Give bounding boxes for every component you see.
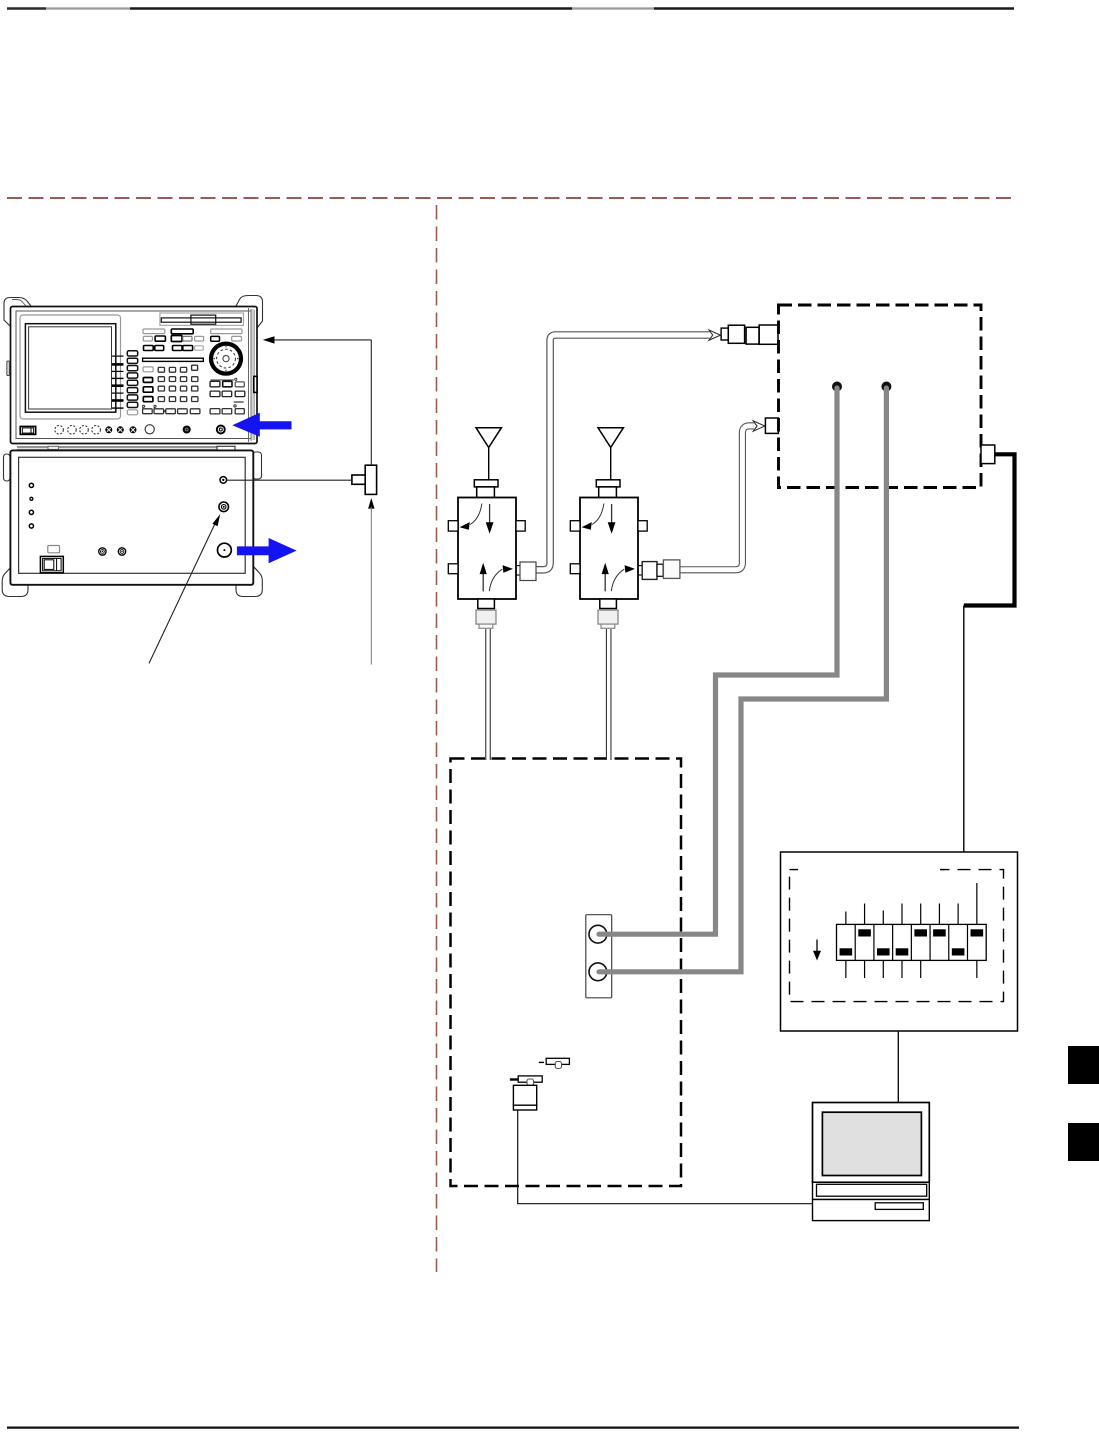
- F-key button 7: [127, 395, 137, 400]
- coupler DC2 curved arrow to right: [611, 569, 624, 591]
- gray cable G1: [599, 388, 837, 934]
- lower unit right connector 2: [219, 502, 229, 512]
- lower unit LED 4: [29, 524, 33, 528]
- antenna A1 triangle: [476, 428, 501, 448]
- keypad col1 r4 dark: [143, 397, 153, 402]
- test point dot 2: [881, 382, 891, 392]
- btn g1 r2 light: [143, 336, 152, 341]
- softkey tick 5: [112, 384, 124, 387]
- device upper T cylinder: [555, 1062, 561, 1069]
- BTS right side connector square: [981, 445, 995, 464]
- breaker panel inner dashed box top-edge blank: [798, 866, 940, 873]
- inter-unit trim line 1: [17, 446, 223, 448]
- BNC plate: [586, 915, 612, 998]
- vertical brown dashed separator: [436, 205, 438, 1272]
- coupler DC1 right stub upper: [516, 521, 525, 531]
- lower unit right connector 1: [220, 477, 227, 484]
- BTS cabinet dashed box: [779, 305, 982, 488]
- cable panel to laptop: [897, 1031, 899, 1103]
- coupler DC2 right connector block B: [663, 560, 680, 579]
- inter-unit trim small left piece: [48, 446, 59, 449]
- laptop keyboard inner: [817, 1184, 927, 1196]
- coupler DC2 right connector block A: [642, 562, 657, 580]
- device output line to laptop: [518, 1110, 813, 1204]
- top unit inner chassis line: [16, 311, 252, 439]
- coupler DC2 right stub upper: [638, 521, 647, 531]
- device upper T bar: [546, 1058, 569, 1064]
- device lower T dash: [510, 1078, 518, 1080]
- keypad key r3c1: [158, 386, 164, 391]
- breaker 4 toggle: [896, 948, 909, 955]
- device lower T cylinder: [527, 1079, 534, 1086]
- up arrow below adapter: head: [368, 498, 374, 509]
- rc r2 b2: [222, 391, 232, 397]
- lower unit LED 2: [30, 497, 33, 500]
- breaker panel down arrow head: [813, 951, 821, 961]
- BTS RX connector square: [765, 418, 778, 433]
- dashed circle connector 2: [68, 426, 77, 435]
- floppy eject tab: [191, 315, 216, 324]
- rc r3 b3: [235, 409, 244, 414]
- keypad key r2c2: [169, 377, 175, 382]
- breaker 3 bottom lead: [882, 960, 884, 978]
- rotary knob mid circle: [217, 349, 236, 368]
- laptop base slot: [875, 1203, 923, 1210]
- breaker 7 top lead: [957, 904, 959, 925]
- lower unit bottom-right foot: [236, 566, 262, 597]
- BTS input connector piece 1: [721, 328, 728, 340]
- keypad key r3c2: [169, 386, 175, 391]
- coupler DC2 right port neck lines: [638, 565, 643, 567]
- laptop screen: [822, 1112, 921, 1175]
- breaker panel outer box: [781, 852, 1018, 1031]
- keypad key r3c3: [180, 386, 186, 391]
- cable W1 open arrowhead: [709, 330, 721, 340]
- coupler DC2 top flange narrow: [599, 487, 617, 498]
- right cluster top circle marker: [235, 378, 237, 380]
- breaker divider 1: [854, 924, 856, 960]
- breaker 5 toggle: [914, 929, 927, 936]
- rc r3 b2: [222, 409, 232, 414]
- lower unit left mid foot: [4, 454, 11, 481]
- rotary knob center: [223, 356, 229, 362]
- breaker 5 top lead: [920, 904, 922, 925]
- keypad col1 r2 dark: [143, 378, 152, 383]
- black cable thin section: [963, 606, 965, 853]
- laptop keyboard outer: [813, 1182, 930, 1199]
- rc bottom line: [234, 401, 244, 403]
- keypad bottom btn 4: [178, 409, 188, 414]
- coupler DC1 bottom flange: [478, 599, 495, 609]
- cable W2 (outer): [679, 426, 754, 570]
- coupler DC2 bottom flange: [600, 599, 617, 609]
- breaker 5 bottom lead: [920, 960, 922, 978]
- softkey tick 6: [112, 392, 124, 394]
- lower unit LED 1: [29, 483, 33, 487]
- test point dot 1: [832, 382, 842, 392]
- F-key button 3: [127, 366, 137, 371]
- breaker 2 bottom lead: [864, 960, 866, 978]
- antenna A1 stem: [488, 448, 490, 480]
- keypad col1 r3 dark: [143, 387, 153, 392]
- keypad key r2c3: [180, 377, 186, 382]
- mid knob: [183, 426, 190, 433]
- keypad key r2c1: [158, 377, 164, 382]
- rotary knob ticks: [214, 346, 239, 371]
- rc r1 b1: [210, 381, 220, 387]
- F-key button 9 (light): [127, 410, 137, 415]
- coupler DC2 bottom connector tip: [601, 624, 615, 628]
- small knob 2: [117, 427, 123, 433]
- CRT screen: [29, 327, 112, 409]
- floppy drive bezel: [160, 313, 244, 325]
- callout top arrowhead: [263, 336, 275, 343]
- F-key button 2: [127, 358, 137, 363]
- instrument top-right foot: [236, 296, 263, 329]
- page tab marker 1: [1068, 1046, 1099, 1084]
- btn g2 r3 dark a: [173, 346, 183, 351]
- device lower T bar: [518, 1076, 542, 1082]
- up arrow below adapter: shaft: [370, 507, 372, 665]
- coupler DC2 down arrow: [611, 504, 613, 523]
- lower unit LED 3: [29, 510, 33, 514]
- rotary knob outer ring: [211, 344, 241, 374]
- cable W1 (core): [536, 335, 710, 570]
- softkey tick 3: [112, 370, 124, 372]
- top unit right side slot: [254, 376, 257, 392]
- breaker 8 toggle: [971, 929, 984, 936]
- breaker 1 toggle: [840, 948, 853, 955]
- device body: [513, 1085, 536, 1105]
- F-key button 5: [127, 380, 137, 385]
- coupler DC1 top flange narrow: [477, 487, 495, 498]
- cable W2 open arrowhead: [753, 421, 765, 431]
- BNC jack 2: [589, 963, 607, 981]
- keypad key r2c4: [192, 377, 198, 382]
- coupler DC2 top flange wide: [596, 480, 620, 487]
- cable W4 DC2 down (outer): [606, 629, 612, 760]
- breaker 8 top lead: [976, 883, 978, 924]
- rc r1 b2: [223, 381, 232, 387]
- coupler DC1 left stub lower: [448, 564, 458, 574]
- footer rule: [7, 1426, 1019, 1428]
- keypad key r1c3: [180, 367, 186, 372]
- dashed circle connector 1: [55, 426, 64, 435]
- coupler DC1 curved arrow to left: [470, 504, 482, 525]
- header rule dark segment 2: [130, 7, 572, 10]
- coupler DC1 right port neck lines: [515, 565, 520, 567]
- keypad key r1c1: [158, 367, 164, 372]
- device base strip: [513, 1105, 536, 1110]
- rc r1 b3: [235, 382, 244, 387]
- btn g2 r2 light b: [195, 336, 204, 341]
- F-key button 4: [127, 373, 137, 378]
- small knob 1: [106, 427, 112, 433]
- breaker divider 7: [966, 924, 968, 960]
- breaker row body: [837, 924, 987, 960]
- breaker panel inner dashed box top dot: [941, 869, 945, 871]
- instrument top-left foot: [4, 298, 31, 327]
- keypad bottom btn 5: [190, 409, 200, 414]
- CRT frame: [25, 324, 115, 413]
- lower unit right big connector: [218, 543, 232, 557]
- keypad bottom tick a: [143, 405, 145, 407]
- breaker divider 5: [929, 924, 931, 960]
- keypad bottom row link dashes: [164, 410, 166, 412]
- coupler DC1 up arrow: [482, 574, 484, 592]
- breaker 6 toggle: [933, 929, 946, 936]
- breaker 2 top lead: [864, 904, 866, 925]
- breaker divider 4: [910, 924, 912, 960]
- breaker 4 bottom lead: [901, 960, 903, 978]
- F-key button 6: [127, 388, 137, 393]
- device upper T dash: [539, 1061, 544, 1063]
- keypad key r1c5 raised: [192, 365, 198, 370]
- cable W4 DC2 down (core): [607, 629, 610, 760]
- keypad bottom btn 2: [154, 409, 164, 414]
- coupler DC2 right connector neck: [657, 564, 663, 576]
- header rule left dark segment: [7, 7, 46, 9]
- breaker 6 top lead: [938, 904, 940, 925]
- breaker 8 bottom lead: [976, 960, 978, 978]
- BTS input connector piece 3: [746, 327, 759, 344]
- breaker divider 6: [948, 924, 950, 960]
- open circle connector: [145, 425, 154, 434]
- coupler DC2 bottom connector block: [598, 610, 618, 624]
- BTS input connector piece 2: [728, 325, 744, 343]
- shelter dashed box: [451, 759, 682, 1187]
- btn g2 r2 dark big: [171, 336, 182, 342]
- black cable thick section: [964, 454, 1015, 605]
- breaker 1 top lead: [845, 912, 847, 925]
- rc r3 b1: [210, 409, 220, 414]
- adapter T body: [365, 465, 376, 494]
- right knob with ring: [217, 426, 225, 434]
- diagonal callout arrowhead: [212, 514, 220, 526]
- coupler DC2 body: [580, 498, 638, 600]
- inter-unit trim line 2: [17, 448, 223, 450]
- keypad key r4c3: [180, 397, 186, 402]
- header rule gray segment 2: [572, 7, 654, 9]
- softkey tick 4: [112, 377, 124, 379]
- softkey tick 1: [112, 355, 124, 357]
- header rule dark segment 3: [654, 7, 1014, 10]
- coupler DC2 curved arrow to left: [592, 504, 604, 525]
- blue arrow pointing right (RF OUT): [237, 538, 297, 563]
- long bar button: [143, 358, 204, 361]
- cable W2 (core): [679, 426, 754, 570]
- coupler DC1 bottom connector block: [476, 610, 496, 624]
- breaker panel inner dashed box: [790, 870, 1004, 1002]
- breaker 2 toggle: [858, 929, 871, 936]
- btn g2 r3 light c: [195, 346, 204, 350]
- btn g3 r2 dark: [211, 336, 220, 341]
- coupler DC2 left stub upper: [570, 521, 580, 531]
- coupler DC2 up arrow: [604, 574, 606, 592]
- btn g1 r2 dark: [155, 336, 165, 341]
- btn g3 r2 light: [232, 336, 242, 341]
- btn g1 wide light: [143, 329, 165, 334]
- cable W1 (outer): [536, 335, 710, 570]
- keypad key r1c2: [169, 367, 175, 372]
- F-key button 1: [127, 351, 137, 356]
- right cluster top line: [210, 379, 234, 381]
- lower unit power button: [40, 556, 63, 572]
- breaker panel down arrow shaft: [816, 940, 818, 954]
- callout vertical line: [370, 340, 372, 465]
- blue arrow pointing left (RF IN): [232, 413, 291, 437]
- breaker divider 3: [892, 924, 894, 960]
- breaker 3 toggle: [877, 948, 890, 955]
- adapter T side tab: [352, 475, 365, 484]
- cable W3 DC1 down (core): [486, 629, 489, 760]
- coupler DC2 left stub lower: [570, 564, 580, 574]
- breaker 4 top lead: [901, 904, 903, 925]
- lower unit connector b: [118, 548, 125, 555]
- coupler DC1 bottom connector tip: [479, 624, 493, 628]
- coupler DC1 body: [458, 498, 516, 600]
- antenna A2 triangle: [598, 428, 623, 448]
- keypad key r4c4: [192, 397, 198, 402]
- gray cable G2: [599, 388, 886, 972]
- BNC jack 1: [589, 925, 607, 943]
- laptop monitor outer: [813, 1103, 930, 1183]
- inter-unit trim block: [217, 446, 235, 450]
- keypad key r3c4: [192, 386, 198, 391]
- lower unit bottom-left foot: [2, 566, 28, 597]
- lower unit bottom-right foot diagonal: [254, 567, 259, 573]
- small knob 3: [130, 427, 136, 433]
- btn g1 r3 dark a: [144, 346, 154, 351]
- breaker 7 toggle: [952, 948, 965, 955]
- keypad bottom btn 1: [143, 409, 153, 414]
- btn g3 wide light: [211, 329, 242, 334]
- laptop base: [813, 1200, 930, 1221]
- softkey tick 2: [112, 363, 124, 366]
- rc r2 b3: [235, 391, 245, 397]
- rc r2 b1: [210, 391, 220, 397]
- keypad col1 r1 light: [143, 367, 153, 372]
- coupler DC1 curved arrow to right: [489, 569, 502, 591]
- callout horizontal line to connector: [227, 479, 352, 481]
- btn g2 wide dark: [171, 329, 193, 334]
- dashed circle connector 4: [92, 426, 101, 435]
- top unit left side tab: [7, 361, 9, 376]
- horizontal brown dashed separator: [7, 197, 1016, 199]
- page tab marker 2: [1068, 1123, 1099, 1161]
- lower unit right mid foot: [253, 452, 262, 479]
- breaker 1 bottom lead: [845, 960, 847, 978]
- btn g2 r3 dark b: [183, 346, 193, 351]
- keypad bottom btn 3: [166, 409, 176, 414]
- btn g2 r2 light a: [183, 336, 192, 341]
- breaker divider 2: [873, 924, 875, 960]
- lower unit outer chassis: [10, 450, 253, 584]
- keypad key r4c1: [158, 397, 164, 402]
- top unit right side rail lines: [248, 308, 250, 442]
- coupler DC1 down arrow: [489, 504, 491, 523]
- power switch top unit: [20, 426, 36, 434]
- breaker 3 top lead: [882, 911, 884, 925]
- btn g1 r3 dark b: [155, 346, 164, 351]
- header rule gray segment 1: [46, 7, 130, 9]
- rc bottom square marker: [234, 405, 236, 407]
- CRT bezel: [20, 315, 121, 419]
- callout top horizontal line: [274, 339, 371, 341]
- keypad key r4c2: [169, 397, 175, 402]
- lower unit connector a: [99, 548, 106, 555]
- dashed circle connector 3: [80, 426, 89, 435]
- antenna A2 stem: [610, 448, 612, 480]
- keypad bottom tick b: [154, 405, 156, 407]
- coupler DC1 top flange wide: [474, 480, 498, 487]
- lower unit inner panel: [19, 457, 246, 573]
- softkey tick 8: [112, 407, 124, 409]
- top unit right side rail band: [251, 309, 254, 440]
- coupler DC1 right connector block: [520, 562, 536, 581]
- softkey tick 7: [112, 399, 124, 402]
- F-key button 8: [127, 402, 137, 407]
- cable W3 DC1 down (outer): [485, 629, 491, 760]
- diagonal callout line: [149, 522, 216, 664]
- floppy slot: [161, 318, 241, 322]
- top unit outer chassis: [11, 307, 258, 444]
- coupler DC1 left stub upper: [448, 521, 458, 531]
- BTS input connector piece 4: [759, 325, 778, 344]
- lower unit indicator window: [48, 546, 60, 553]
